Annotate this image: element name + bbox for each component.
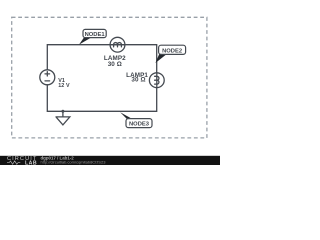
svg-text:NODE1: NODE1 — [85, 32, 106, 38]
svg-text:NODE2: NODE2 — [162, 48, 182, 54]
svg-text:http://circuitlab.com/cqmitab8: http://circuitlab.com/cqmitab8CfJS23 — [41, 160, 107, 165]
svg-text:LAB: LAB — [25, 160, 37, 165]
svg-text:12 V: 12 V — [58, 83, 70, 89]
svg-text:30 Ω: 30 Ω — [108, 61, 122, 68]
svg-text:NODE3: NODE3 — [129, 122, 150, 128]
svg-text:30 Ω: 30 Ω — [131, 77, 145, 84]
